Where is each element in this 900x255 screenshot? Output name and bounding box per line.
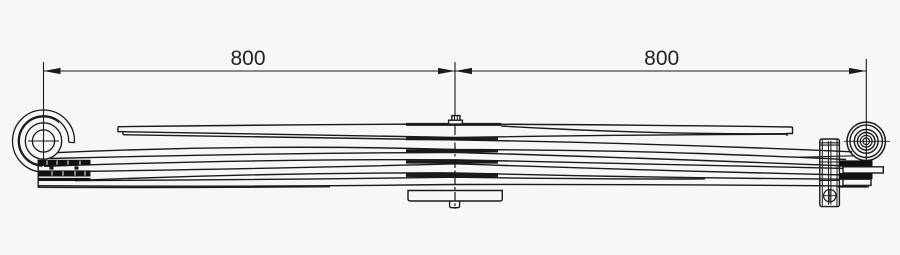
leaf L3 top edge [58, 147, 846, 159]
center bolt head nub [452, 116, 460, 121]
right bottom line [838, 186, 869, 188]
svg-text:800: 800 [230, 47, 265, 70]
clip bolt mark 1 [50, 166, 54, 169]
leaf L1 bottom edge right half [501, 126, 787, 134]
extension line right [865, 59, 867, 169]
leaf L5 top edge [75, 173, 845, 181]
bracket bolt [824, 190, 836, 202]
arrowhead left [44, 68, 61, 74]
left clip band A [39, 160, 91, 166]
leaf L1 top edge [118, 124, 793, 127]
center bolt nut [450, 201, 460, 208]
left clip band C [39, 178, 91, 181]
leaf L2 center band [406, 137, 498, 140]
leaf L4 top edge [44, 160, 845, 169]
right eye centerline horizontal [844, 140, 890, 142]
wrapper tip cap [69, 141, 75, 143]
leaf L4 bottom edge [43, 164, 845, 175]
leaf L3 bottom edge [50, 152, 848, 166]
leaf L5 center band [406, 173, 498, 177]
left eye bore outer [25, 123, 61, 159]
leaf L6 lower line [38, 186, 330, 189]
extension line center [454, 62, 456, 126]
center bolt head base [449, 120, 463, 124]
center clamp plate [408, 191, 502, 202]
leaf L2 bottom edge [123, 135, 852, 152]
left eye wrapper outer arc [13, 110, 75, 172]
right stack band E [839, 173, 872, 179]
leaf L3 center band [406, 149, 498, 152]
right clamp bracket [820, 139, 840, 207]
arrowhead center-left [438, 68, 455, 74]
left eye wrapper inner arc [18, 116, 68, 166]
left clip band B [39, 170, 91, 176]
dimension line [44, 70, 867, 72]
left eye centerline horizontal [28, 140, 59, 142]
leaf L2 right cap [786, 134, 788, 136]
right pin bar [843, 167, 883, 173]
leaf L6 bottom line [38, 184, 867, 186]
leaf L4 center band [406, 160, 498, 163]
leaf L2 top edge [123, 132, 787, 138]
clip band texture slits [47, 161, 85, 176]
leaf L1 center band [406, 123, 501, 126]
clip bolt mark 2 [75, 166, 79, 169]
svg-text:800: 800 [644, 47, 679, 70]
left eye main-leaf curl [19, 117, 59, 165]
right lower bar [843, 179, 871, 185]
left eye bushing bore [32, 130, 54, 152]
leaf L1 left cap [118, 127, 123, 135]
extension line left [43, 62, 45, 160]
arrowhead center-right [455, 68, 472, 74]
right eye circles [847, 122, 885, 160]
arrowhead right [849, 68, 866, 74]
right stack band D [839, 160, 872, 166]
bolt head teeth [454, 116, 456, 121]
leaf L1 right cap step [787, 127, 793, 136]
left stack end cap [37, 160, 39, 188]
under-eye bar line [800, 156, 855, 157]
leaf L5 bottom edge [75, 177, 705, 180]
